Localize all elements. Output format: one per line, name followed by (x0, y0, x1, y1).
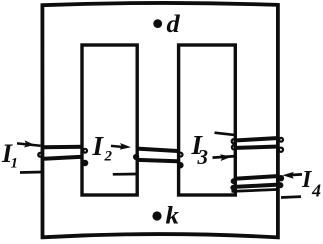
svg-text:4: 4 (311, 181, 321, 201)
svg-text:k: k (166, 203, 180, 230)
svg-text:2: 2 (104, 149, 113, 165)
svg-text:3: 3 (197, 145, 209, 169)
svg-text:1: 1 (11, 156, 19, 172)
svg-text:d: d (167, 11, 181, 38)
svg-text:I: I (92, 131, 105, 161)
